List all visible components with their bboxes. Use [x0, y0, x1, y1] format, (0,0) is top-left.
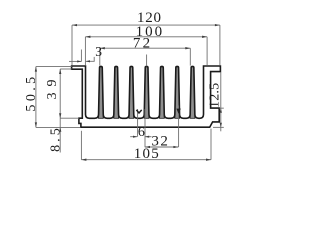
dim 50.5 vertical	[35, 67, 37, 128]
arrows 6	[133, 136, 137, 138]
dim 6	[137, 109, 139, 137]
svg-text:105: 105	[134, 146, 160, 162]
svg-text:50.5: 50.5	[24, 73, 39, 111]
svg-text:3: 3	[95, 44, 102, 59]
slot marks	[136, 110, 141, 113]
heatsink profile outline	[72, 66, 221, 127]
arrowheads	[35, 24, 222, 161]
svg-text:8.5: 8.5	[49, 125, 64, 152]
dim line 72	[100, 47, 191, 49]
dim line 120	[72, 24, 220, 26]
arrows 32	[145, 146, 150, 148]
arrows 105	[81, 159, 86, 161]
arrows 12.5	[220, 108, 222, 113]
dim 105	[81, 159, 211, 161]
svg-text:12.5: 12.5	[207, 83, 222, 108]
arrows 3	[77, 60, 81, 62]
arrows 50.5	[35, 67, 37, 72]
arrows 100	[85, 36, 90, 38]
center tick above middle fin	[146, 55, 148, 67]
svg-text:72: 72	[133, 35, 152, 51]
fin fills	[99, 67, 195, 119]
arrows 72	[100, 47, 105, 49]
dim 32	[145, 146, 178, 148]
dim 3	[69, 60, 81, 62]
dim 12.5 vertical	[220, 72, 222, 131]
dimension lines	[36, 25, 224, 160]
dim line 100	[85, 36, 207, 38]
svg-text:39: 39	[45, 74, 60, 100]
arrows 39	[59, 69, 61, 74]
arrows 120	[72, 24, 77, 26]
dim 39 / 8.5 vertical	[59, 69, 61, 153]
arrows 8.5	[59, 127, 61, 132]
svg-text:6: 6	[138, 125, 145, 140]
